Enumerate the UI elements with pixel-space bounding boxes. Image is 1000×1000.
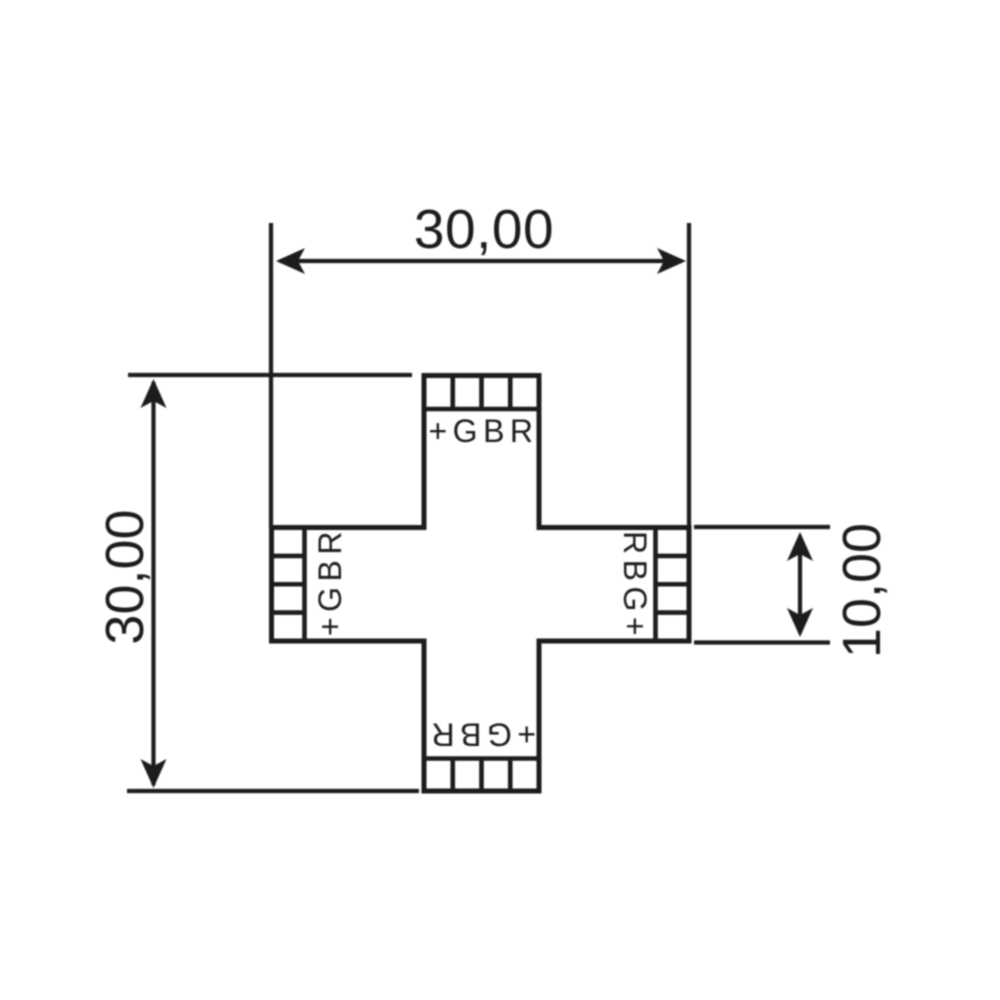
svg-text:+GBR: +GBR <box>426 717 536 753</box>
svg-text:RBG+: RBG+ <box>617 531 653 641</box>
svg-text:30,00: 30,00 <box>95 509 155 644</box>
svg-text:+GBR: +GBR <box>312 526 348 636</box>
svg-text:30,00: 30,00 <box>414 198 554 260</box>
svg-text:10,00: 10,00 <box>832 523 892 658</box>
svg-text:+GBR: +GBR <box>428 413 538 449</box>
